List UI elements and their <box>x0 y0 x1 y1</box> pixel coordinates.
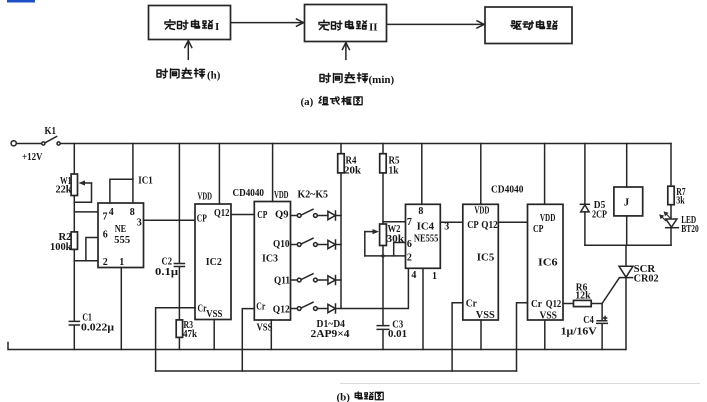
wire pin6 IC4 bracket <box>394 243 406 256</box>
svg-text:12k: 12k <box>575 290 591 301</box>
svg-text:IC1: IC1 <box>138 175 153 186</box>
svg-text:2: 2 <box>407 253 412 264</box>
thyristor SCR CR02 <box>625 245 627 266</box>
wire SCR gate <box>602 278 619 304</box>
wire pin8 IC1 to rail <box>132 144 134 204</box>
wire VSS IC2 to ground <box>213 320 215 350</box>
op-amp timer IC1 NE555 <box>98 203 144 268</box>
svg-text:Q12: Q12 <box>481 220 498 231</box>
wire relay output horizontal <box>585 244 671 246</box>
svg-text:3: 3 <box>137 217 142 228</box>
switch K4 and diode D3 row <box>291 274 342 285</box>
svg-text:22k: 22k <box>56 184 72 195</box>
resistor R4 <box>340 144 342 309</box>
ground rail <box>8 343 626 350</box>
svg-text:IC2: IC2 <box>206 257 222 268</box>
svg-text:(h): (h) <box>207 70 221 82</box>
wire VDD IC2 to rail <box>218 144 220 205</box>
svg-text:1μ/16V: 1μ/16V <box>561 327 598 338</box>
counter IC5 CD4040 <box>463 204 499 320</box>
wire J to rail <box>626 144 628 188</box>
label 时间选择 (h) <box>157 68 221 82</box>
block box 驱动电路 <box>485 7 572 44</box>
svg-text:J: J <box>624 197 630 209</box>
wire Cr IC6 to reset rail <box>517 303 528 371</box>
wire W1 wiper loop <box>74 180 91 202</box>
wire pin4-pin8 bracket IC1 <box>110 179 133 203</box>
svg-text:VDD: VDD <box>540 213 556 224</box>
svg-text:100k: 100k <box>50 242 72 253</box>
capacitor C4 electrolytic <box>601 304 603 350</box>
svg-text:CP: CP <box>257 210 267 221</box>
svg-text:VDD: VDD <box>274 190 289 201</box>
wire C2 branch vertical <box>178 144 180 350</box>
wire W2 wiper loop <box>365 229 379 256</box>
relay J <box>614 187 643 216</box>
svg-text:VSS: VSS <box>540 311 558 322</box>
svg-text:Cr: Cr <box>531 299 543 310</box>
svg-text:7: 7 <box>407 217 412 228</box>
LED BT20 <box>666 219 679 245</box>
wire pin3 IC4 to CP IC5 <box>440 221 463 223</box>
svg-text:2CP: 2CP <box>592 209 607 220</box>
svg-text:VSS: VSS <box>257 322 273 333</box>
svg-text:6: 6 <box>103 230 108 241</box>
svg-text:CD4040: CD4040 <box>233 188 265 199</box>
svg-text:Q12: Q12 <box>546 299 562 310</box>
wire pin1 IC4 to ground <box>422 268 424 349</box>
wire Q12 IC5 to CP IC6 <box>498 221 527 223</box>
wire Cr IC3 to reset rail <box>242 309 254 371</box>
svg-text:NE: NE <box>115 224 127 235</box>
svg-text:Q11: Q11 <box>274 275 290 286</box>
svg-text:K1: K1 <box>45 126 57 137</box>
resistor R3 <box>176 320 182 338</box>
wire terminal to K1 <box>16 143 41 145</box>
svg-text:VSS: VSS <box>206 309 222 320</box>
switch K2 and diode D1 row <box>291 209 342 220</box>
wire pin1 IC1 to ground <box>120 268 122 350</box>
svg-text:Q12: Q12 <box>273 304 290 315</box>
svg-text:2AP9×4: 2AP9×4 <box>311 329 350 340</box>
wire VSS IC6 to ground <box>544 320 546 350</box>
svg-text:0.01: 0.01 <box>388 329 407 340</box>
reset rail <box>156 370 517 372</box>
svg-text:Q12: Q12 <box>214 208 230 219</box>
svg-text:+12V: +12V <box>22 152 43 163</box>
svg-text:K2~K5: K2~K5 <box>298 189 329 200</box>
capacitor C3 <box>377 326 389 330</box>
svg-text:VDD: VDD <box>474 206 489 217</box>
arrow up into box2 <box>342 43 349 60</box>
svg-text:VDD: VDD <box>198 192 213 203</box>
wire pin3 IC1 to CP IC2 <box>144 219 196 221</box>
svg-text:4: 4 <box>411 270 416 281</box>
wire Q12 IC2 to CP IC3 <box>231 214 254 216</box>
wire VDD IC3 to rail <box>272 144 274 202</box>
svg-text:7: 7 <box>103 212 108 223</box>
svg-text:VSS: VSS <box>476 310 495 321</box>
svg-text:II: II <box>369 22 378 34</box>
wire Q12 IC6 to R6 <box>563 303 574 305</box>
svg-text:NE555: NE555 <box>414 233 439 244</box>
svg-text:IC4: IC4 <box>417 221 435 232</box>
svg-text:Cr: Cr <box>256 301 265 312</box>
svg-text:IC3: IC3 <box>262 253 278 264</box>
svg-text:2: 2 <box>103 257 108 268</box>
wire pin7 IC4 <box>383 221 406 223</box>
wire Cr IC2 to reset rail <box>156 308 195 371</box>
svg-text:(a): (a) <box>301 96 314 108</box>
wire VDD IC5 to rail <box>480 144 482 205</box>
capacitor C2 <box>174 264 184 267</box>
svg-text:CD4040: CD4040 <box>491 184 524 195</box>
svg-text:47k: 47k <box>183 329 197 340</box>
svg-text:20k: 20k <box>344 166 361 177</box>
svg-text:CP: CP <box>197 214 207 225</box>
faint scan artifact line <box>340 383 700 385</box>
wire +12V top rail <box>60 143 671 145</box>
potentiometer W1 <box>71 174 77 196</box>
svg-text:CR02: CR02 <box>634 274 659 285</box>
svg-text:Cr: Cr <box>466 299 478 310</box>
counter IC2 CD4040 <box>195 204 231 320</box>
svg-text:3k: 3k <box>676 196 685 207</box>
arrow up into box1 <box>185 41 192 60</box>
arrow box2 to box3 <box>387 21 484 28</box>
svg-text:CP: CP <box>533 224 544 235</box>
label 时间选择(min) <box>320 73 395 87</box>
svg-text:8: 8 <box>418 206 423 217</box>
svg-text:BT20: BT20 <box>681 224 699 235</box>
switch K3 and diode D2 row <box>291 238 342 249</box>
wire pins 2 and 6 bracket <box>74 238 98 261</box>
block box 定时电路II <box>305 5 387 42</box>
caption (b)电路图 <box>337 392 384 402</box>
wire VSS IC5 to ground <box>480 320 482 350</box>
wire VDD IC6 to rail <box>544 144 546 205</box>
switch K1 <box>42 137 61 146</box>
svg-text:(min): (min) <box>369 74 395 86</box>
diode D5 2CP flyback <box>584 144 586 246</box>
wire pin7 IC1 <box>74 211 98 213</box>
svg-text:30k: 30k <box>387 234 405 245</box>
svg-text:555: 555 <box>114 235 130 246</box>
wire pin8 IC4 to rail <box>421 144 423 205</box>
wire J bottom <box>626 216 628 245</box>
resistor R6 <box>574 300 592 306</box>
arrow box1 to box2 <box>231 19 304 26</box>
svg-text:(b): (b) <box>337 392 351 402</box>
potentiometer W2 <box>380 224 387 246</box>
wire VSS IC3 to ground <box>270 320 272 350</box>
svg-text:0.022μ: 0.022μ <box>81 323 114 334</box>
wire main left vertical <box>73 144 75 350</box>
svg-text:C4: C4 <box>583 315 594 326</box>
wire pin2 node IC4 <box>365 255 406 257</box>
svg-text:1: 1 <box>119 257 124 268</box>
svg-text:1: 1 <box>432 271 437 282</box>
counter IC3 CD4040 <box>254 202 290 321</box>
node +12V input terminal <box>11 141 16 146</box>
svg-text:0.1μ: 0.1μ <box>155 267 178 278</box>
counter IC6 CD4040 <box>528 204 564 320</box>
svg-text:Q10: Q10 <box>273 239 290 250</box>
resistor R5 <box>382 144 384 350</box>
svg-text:4: 4 <box>109 207 114 218</box>
switch K5 and diode D4 row <box>291 302 336 313</box>
svg-text:I: I <box>215 21 219 33</box>
timer IC4 NE555 <box>406 204 441 268</box>
resistor R7 <box>670 144 672 219</box>
capacitor C1 <box>69 321 79 325</box>
wire R6 to gate node <box>591 303 602 305</box>
svg-text:IC5: IC5 <box>477 253 495 264</box>
wire Cr IC5 to reset rail <box>452 303 463 371</box>
wire D4 row to pin4 IC4 <box>336 268 409 308</box>
svg-text:6: 6 <box>407 239 412 250</box>
block box 定时电路I <box>149 6 231 40</box>
watermark blue bar top-left <box>7 0 35 3</box>
svg-text:1k: 1k <box>389 166 399 177</box>
svg-text:CP: CP <box>467 220 479 231</box>
svg-text:IC6: IC6 <box>538 257 558 268</box>
svg-text:Q9: Q9 <box>275 210 289 221</box>
resistor R2 <box>71 232 77 250</box>
svg-text:8: 8 <box>130 207 135 218</box>
caption (a) 组成框图 <box>301 96 363 108</box>
